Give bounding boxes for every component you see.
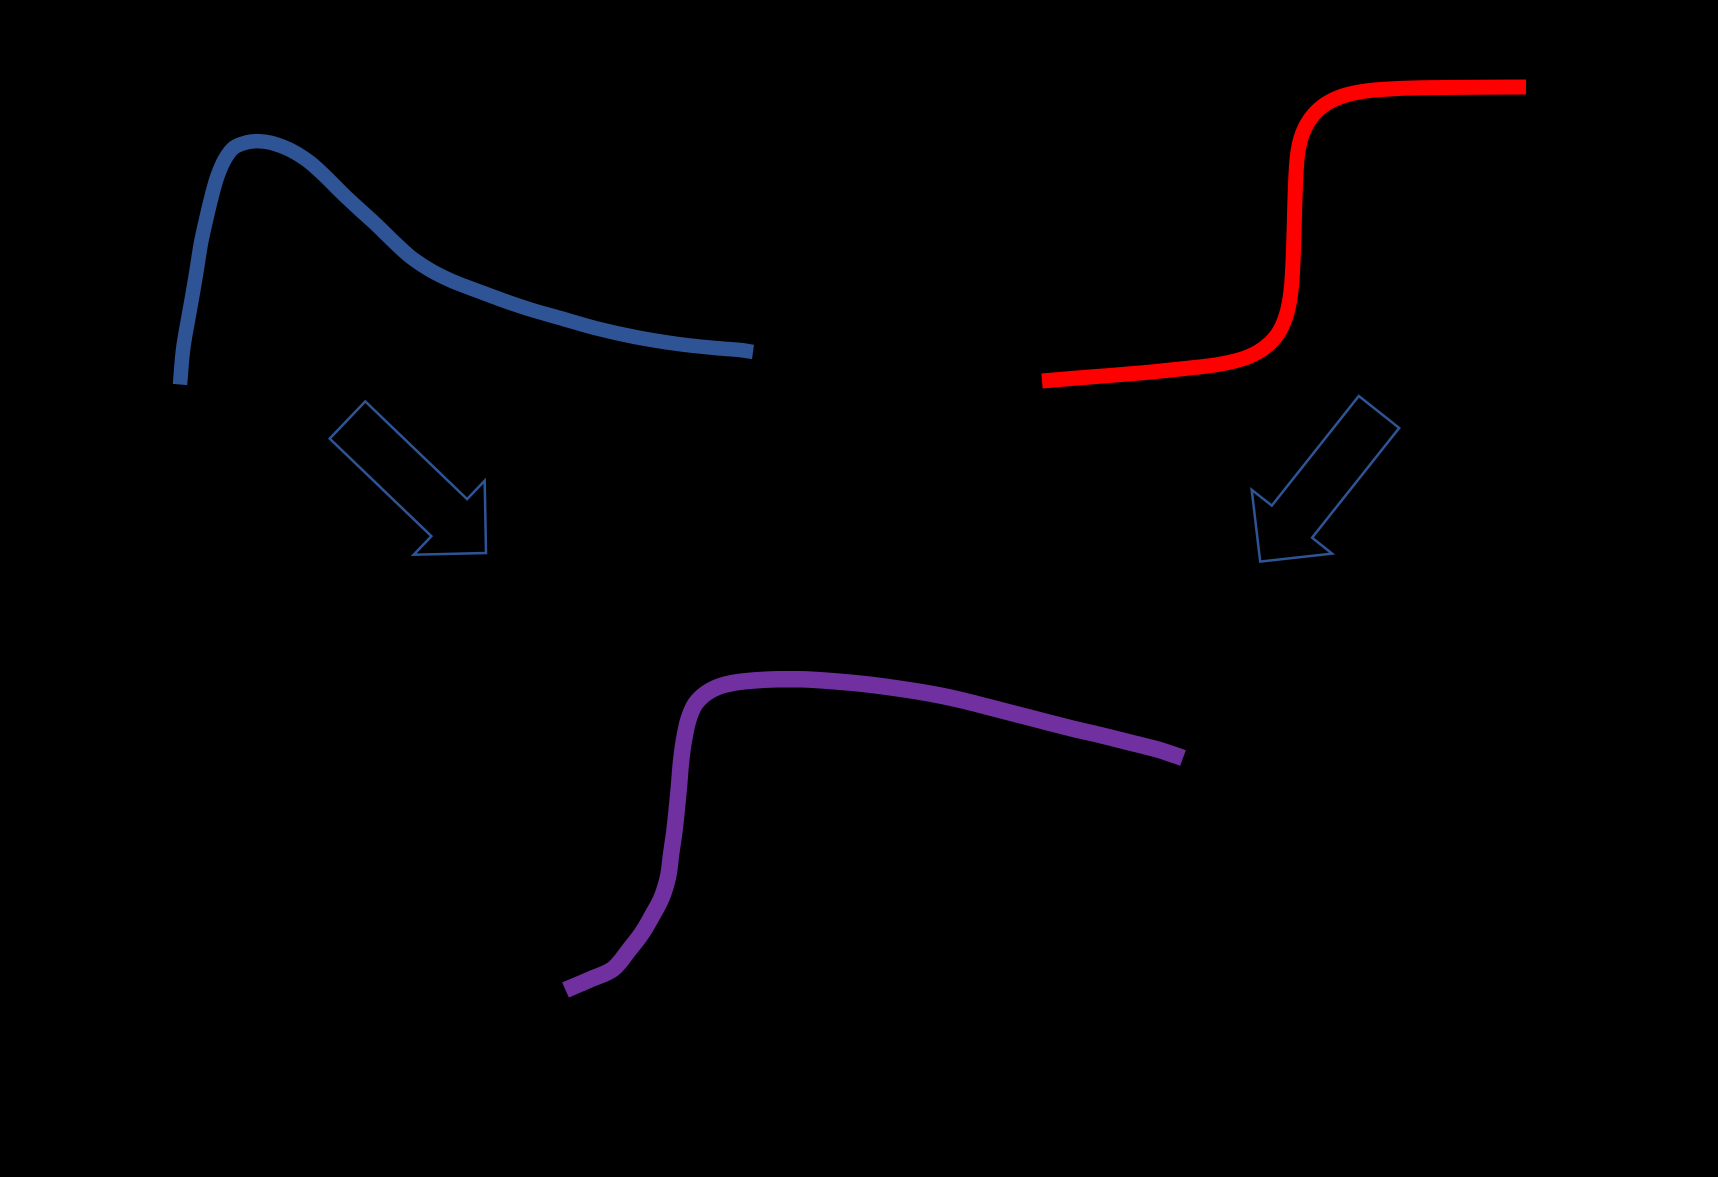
left outlined block arrow (points down-right) — [330, 401, 486, 554]
red sigmoid curve (top right) — [1042, 87, 1526, 381]
blue response curve (top left) — [180, 141, 753, 384]
right outlined block arrow (points down-left) — [1252, 396, 1400, 562]
purple combined curve (bottom middle) — [566, 679, 1184, 990]
